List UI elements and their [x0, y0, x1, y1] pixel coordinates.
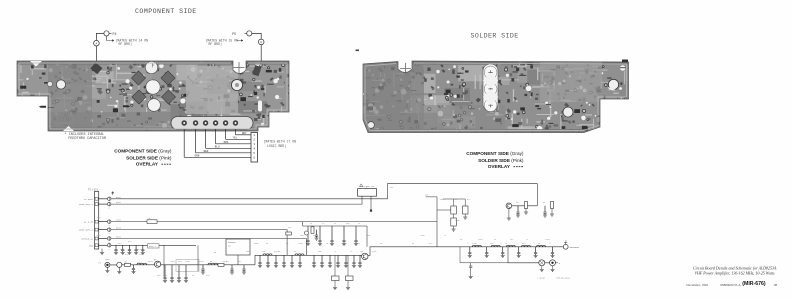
svg-text:L2: L2	[350, 250, 352, 253]
svg-text:YEL: YEL	[233, 137, 238, 140]
capacitor C11	[242, 265, 246, 274]
svg-text:L2: L2	[306, 250, 308, 253]
svg-text:GROUND: GROUND	[48, 106, 56, 109]
output filter	[468, 245, 555, 257]
svg-text:R103: R103	[116, 227, 122, 230]
svg-text:SOLDER SIDE: SOLDER SIDE	[471, 33, 519, 40]
connector RF input P1	[98, 262, 110, 268]
wire bus GND	[111, 244, 196, 246]
wire bus SPKR CNTL-1	[111, 196, 362, 204]
svg-text:1007: 1007	[440, 198, 445, 201]
svg-text:BTK-O8-16-A: BTK-O8-16-A	[557, 277, 571, 280]
wire bus TX CNTL	[111, 184, 537, 206]
connector P4	[104, 31, 117, 37]
svg-text:LOGIC BRD): LOGIC BRD)	[267, 144, 286, 148]
capacitor bank C101-C105	[114, 244, 159, 255]
inductor L1	[137, 260, 147, 265]
net labels	[79, 198, 94, 248]
svg-text:479: 479	[274, 250, 277, 253]
thermistor RT1	[332, 255, 354, 289]
svg-text:K1 ANT SW: K1 ANT SW	[362, 185, 375, 188]
svg-text:1K2: 1K2	[238, 260, 241, 263]
wire A to board	[95, 46, 97, 61]
svg-text:2207: 2207	[372, 250, 377, 253]
wire riser x198	[197, 245, 199, 271]
svg-text:RF BRD): RF BRD)	[209, 42, 222, 46]
wire input chain	[110, 247, 563, 265]
svg-text:SOLDER SIDE (Pink): SOLDER SIDE (Pink)	[478, 158, 524, 163]
inductor L2	[208, 263, 218, 265]
svg-text:A+ 9.6V: A+ 9.6V	[84, 221, 94, 224]
module U1	[226, 239, 250, 255]
part numbers	[538, 277, 571, 280]
svg-text:P5: P5	[232, 33, 236, 37]
svg-text:SPKR CNTL-1: SPKR CNTL-1	[79, 203, 94, 206]
svg-text:COMPONENT SIDE (Gray): COMPONENT SIDE (Gray)	[466, 151, 524, 156]
wire Q5 node	[512, 205, 538, 207]
test point TP1	[539, 260, 545, 272]
svg-text:TX CNTL: TX CNTL	[84, 198, 94, 201]
resistor R31	[524, 202, 528, 215]
capacitor row under Q1	[163, 265, 188, 283]
svg-text:2209: 2209	[185, 260, 190, 263]
capacitor C8	[201, 265, 205, 274]
capacitor bank driver row	[306, 226, 358, 246]
wire K1 stub	[370, 196, 372, 212]
shield box input	[176, 260, 199, 272]
svg-text:GND: GND	[89, 244, 94, 247]
svg-text:NOTE 2: NOTE 2	[149, 245, 156, 248]
relay K1	[358, 184, 377, 196]
connector J7	[251, 133, 258, 163]
wire U1 to chain	[237, 255, 239, 265]
resistor R32	[550, 202, 554, 217]
wire riser x164	[163, 245, 165, 277]
footer row	[686, 281, 777, 288]
svg-text:TX (J2): TX (J2)	[88, 188, 99, 191]
connector B on board	[258, 39, 264, 45]
PCB solder side board	[356, 50, 665, 149]
wire A+ riser	[426, 197, 437, 247]
capacitor C45	[460, 247, 508, 279]
note mates with J7	[264, 139, 297, 148]
capacitor C10	[230, 265, 234, 274]
svg-text:SOLDER SIDE (Pink): SOLDER SIDE (Pink)	[126, 156, 172, 161]
wire bus SPKR CNTL-2	[111, 230, 287, 256]
svg-text:1007: 1007	[366, 234, 371, 237]
resistor cluster left of relay	[286, 227, 319, 240]
svg-text:R104: R104	[116, 236, 122, 239]
inductor L4	[295, 254, 304, 255]
svg-text:RF BRD): RF BRD)	[119, 42, 132, 46]
svg-text:Circuit Board Details and Sche: Circuit Board Details and Schematic for …	[693, 265, 777, 270]
ground input jack	[105, 267, 121, 273]
wire harness J1 to J7	[184, 129, 251, 158]
svg-text:L101: L101	[116, 219, 122, 222]
credit text	[693, 265, 777, 276]
wire riser to Q2	[366, 226, 368, 247]
svg-text:472: 472	[467, 198, 470, 201]
wire P5 to board	[252, 33, 261, 39]
svg-text:RED: RED	[204, 150, 209, 153]
svg-text:COMPONENT SIDE: COMPONENT SIDE	[135, 8, 197, 15]
svg-text:C7: C7	[120, 248, 122, 251]
svg-text:107: 107	[118, 242, 121, 245]
svg-text:CNTRLD A+: CNTRLD A+	[81, 238, 94, 241]
svg-text:R101: R101	[116, 196, 122, 199]
svg-text:1K9: 1K9	[262, 250, 265, 253]
wire P4 to board	[96, 33, 104, 40]
svg-text:6880902Z55-A: 6880902Z55-A	[720, 283, 741, 287]
capacitor bank mid chain	[258, 255, 362, 267]
svg-text:OVERLAY: OVERLAY	[488, 164, 511, 169]
connector A on board	[94, 40, 100, 46]
value labels output	[468, 242, 552, 245]
svg-text:L7: L7	[334, 250, 336, 253]
legend right	[466, 151, 524, 169]
svg-text:FEEDTHRU CAPACITOR: FEEDTHRU CAPACITOR	[68, 137, 107, 141]
svg-text:109: 109	[300, 234, 303, 237]
PCB component side board	[15, 59, 298, 146]
resistor R5	[218, 263, 224, 266]
transistor Q2	[361, 250, 368, 260]
capacitor C32	[543, 206, 547, 217]
svg-text:GRN: GRN	[195, 155, 200, 158]
svg-text:P4: P4	[113, 33, 117, 37]
wire driver bias row	[303, 222, 367, 226]
connector jack J1	[117, 262, 122, 267]
resistor R23	[451, 214, 468, 231]
svg-text:1K2: 1K2	[510, 238, 513, 241]
svg-text:ANTENNA: ANTENNA	[570, 246, 580, 249]
svg-text:C2: C2	[358, 242, 360, 245]
wire bus A+	[111, 221, 437, 223]
svg-text:.017: .017	[428, 242, 433, 245]
svg-text:L7: L7	[526, 238, 528, 241]
schematic	[79, 184, 580, 290]
svg-text:ORG: ORG	[224, 141, 229, 144]
note includes integral feedthru capacitor	[65, 132, 107, 141]
connector P5	[232, 31, 252, 37]
wire B to board	[260, 45, 262, 62]
svg-text:WHT: WHT	[242, 132, 247, 135]
capacitor C1	[131, 265, 135, 274]
svg-text:L-3-O8: L-3-O8	[538, 277, 546, 280]
test point TP2	[550, 260, 561, 272]
svg-text:2209: 2209	[199, 260, 204, 263]
svg-text:102: 102	[157, 274, 160, 277]
transistor Q1	[154, 258, 161, 268]
reference labels	[116, 196, 122, 239]
wire Q5 down	[507, 209, 511, 221]
connector J2	[88, 188, 99, 249]
svg-text:COMPONENT SIDE (Gray): COMPONENT SIDE (Gray)	[114, 148, 172, 153]
capacitor C31	[516, 206, 520, 217]
feedthrough capacitors	[99, 197, 111, 251]
ground	[100, 249, 104, 255]
resistor R21	[437, 199, 465, 214]
wire test line	[508, 247, 550, 263]
antenna connector J4	[563, 241, 579, 249]
svg-text:OVERLAY: OVERLAY	[136, 162, 159, 167]
legend left	[114, 148, 172, 166]
note mates with J5	[206, 38, 244, 46]
resistor R22	[463, 199, 469, 214]
note mates with J4	[107, 36, 149, 46]
transistor Q5	[506, 203, 512, 209]
pin 1 marker	[112, 192, 114, 195]
svg-text:BLU: BLU	[215, 146, 220, 149]
svg-text:SPKR CNTL-2: SPKR CNTL-2	[79, 229, 94, 232]
svg-text:(MATES WITH J7 ON: (MATES WITH J7 ON	[264, 139, 297, 143]
svg-text:(MIR-676): (MIR-676)	[742, 281, 766, 287]
wire bus CNTRLD A+	[111, 239, 307, 256]
svg-text:R102: R102	[116, 201, 122, 204]
inductor L3	[263, 254, 272, 255]
value labels	[96, 186, 550, 277]
resistor R1	[125, 260, 131, 266]
svg-text:2207: 2207	[139, 253, 144, 256]
inductor L5 on A+ line	[147, 217, 157, 223]
